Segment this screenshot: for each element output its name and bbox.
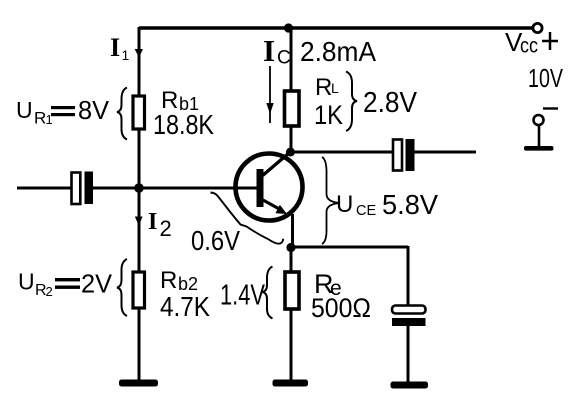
svg-text:R: R xyxy=(34,109,46,128)
svg-text:5.8V: 5.8V xyxy=(382,189,438,220)
svg-text:I: I xyxy=(110,33,120,62)
svg-text:L: L xyxy=(331,80,339,96)
svg-text:U: U xyxy=(336,191,353,218)
svg-text:2: 2 xyxy=(160,216,172,241)
svg-text:1: 1 xyxy=(122,47,130,63)
svg-text:I: I xyxy=(148,209,157,235)
svg-text:18.8K: 18.8K xyxy=(153,109,214,140)
svg-text:U: U xyxy=(16,97,33,123)
svg-text:R: R xyxy=(160,267,177,294)
svg-text:4.7K: 4.7K xyxy=(160,291,210,322)
svg-text:C: C xyxy=(277,48,291,69)
svg-text:2V: 2V xyxy=(81,269,113,299)
svg-text:1K: 1K xyxy=(314,100,343,130)
svg-text:cc: cc xyxy=(520,35,538,58)
svg-text:2.8mA: 2.8mA xyxy=(300,36,376,67)
svg-text:R: R xyxy=(315,74,332,101)
svg-text:CE: CE xyxy=(356,203,376,219)
svg-text:U: U xyxy=(18,269,35,295)
svg-text:1.4V: 1.4V xyxy=(220,280,265,312)
svg-text:2.8V: 2.8V xyxy=(363,87,418,119)
svg-text:2: 2 xyxy=(46,284,53,299)
svg-text:8V: 8V xyxy=(78,95,110,125)
svg-text:I: I xyxy=(263,33,275,68)
svg-text:0.6V: 0.6V xyxy=(191,225,240,256)
svg-text:500Ω: 500Ω xyxy=(311,293,371,323)
svg-text:10V: 10V xyxy=(528,63,563,93)
